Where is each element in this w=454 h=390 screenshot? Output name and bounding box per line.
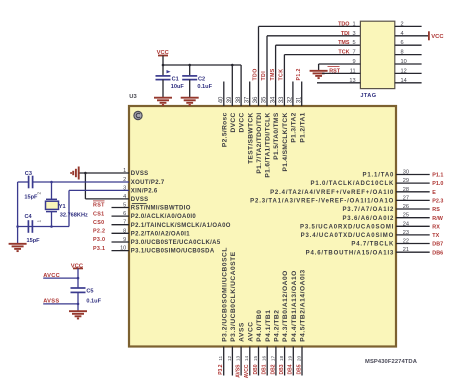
svg-text:TCK: TCK xyxy=(338,50,349,56)
wire U3 pin 12 xyxy=(231,347,233,376)
wire AVSS xyxy=(43,303,78,305)
svg-text:8: 8 xyxy=(401,50,404,56)
svg-text:TDO: TDO xyxy=(253,68,259,80)
svg-text:25: 25 xyxy=(403,213,409,219)
junction C2 rail xyxy=(188,64,191,67)
wire U3 pin 9 stub xyxy=(112,241,130,243)
svg-text:P3.1: P3.1 xyxy=(93,246,105,252)
wire U3 pin 20 xyxy=(301,347,303,376)
wire JTAG pin 2 xyxy=(395,25,422,27)
svg-text:P1.5/TA0/TMS: P1.5/TA0/TMS xyxy=(273,112,280,160)
svg-text:10uF: 10uF xyxy=(171,84,185,90)
node DVSS pin4 underline xyxy=(132,203,147,205)
svg-text:AVSS: AVSS xyxy=(43,299,59,305)
svg-text:P1.2/TA1: P1.2/TA1 xyxy=(299,112,306,142)
wire JTAG pin 10 xyxy=(395,63,422,65)
crystal Y1 xyxy=(46,182,59,227)
svg-text:15pF: 15pF xyxy=(27,238,41,244)
wire TDI horizontal xyxy=(267,35,360,37)
svg-text:11: 11 xyxy=(218,355,224,360)
svg-text:10: 10 xyxy=(401,59,407,65)
capacitor C3 xyxy=(29,176,33,189)
svg-text:19: 19 xyxy=(288,355,294,361)
svg-text:32.768KHz: 32.768KHz xyxy=(60,212,88,218)
wire U3 pin 31 stub xyxy=(301,82,303,107)
wire crystal bottom xyxy=(18,226,69,228)
svg-text:AVCC: AVCC xyxy=(244,364,250,378)
svg-text:P1.1: P1.1 xyxy=(432,173,443,179)
svg-text:5: 5 xyxy=(352,40,355,46)
wire U3 pin 7 stub xyxy=(112,224,130,226)
wire TMS horizontal xyxy=(276,44,361,46)
wire TDO vertical xyxy=(258,26,260,106)
svg-text:24: 24 xyxy=(403,221,409,227)
wire TCK horizontal xyxy=(284,54,360,56)
junction rail bottom wire xyxy=(16,225,19,228)
wire U3 pin 13 xyxy=(240,347,242,376)
svg-text:P1.0/TACLK/ADC10CLK: P1.0/TACLK/ADC10CLK xyxy=(310,181,394,187)
svg-text:DVSS: DVSS xyxy=(131,197,149,203)
svg-text:22: 22 xyxy=(403,239,409,245)
svg-text:DB0: DB0 xyxy=(253,364,259,374)
svg-text:P1.6/TA1/TDI/TCLK: P1.6/TA1/TDI/TCLK xyxy=(265,112,272,177)
svg-text:DB6: DB6 xyxy=(432,250,443,256)
junction pin39 rail xyxy=(231,64,234,67)
wire U3 pin 10 stub xyxy=(112,250,130,252)
capacitor C5 xyxy=(71,288,86,292)
wire C5 to ground xyxy=(77,292,79,311)
wire U3 pin 27 xyxy=(396,199,430,201)
svg-text:U3: U3 xyxy=(129,94,137,100)
svg-text:DVCC: DVCC xyxy=(239,112,246,132)
svg-text:DB4: DB4 xyxy=(288,364,294,374)
svg-text:DVSS: DVSS xyxy=(131,171,149,177)
wire U3 pin 28 xyxy=(396,191,430,193)
svg-text:P4.6/TBOUTH/A15/OA1I3: P4.6/TBOUTH/A15/OA1I3 xyxy=(306,250,395,256)
wire U3 pin 5 stub xyxy=(112,207,130,209)
wire XOUT pin2 xyxy=(33,181,129,183)
svg-text:2: 2 xyxy=(37,192,43,195)
wire U3 pin 23 xyxy=(396,234,430,236)
svg-text:AVCC: AVCC xyxy=(43,273,60,279)
wire TCK vertical xyxy=(283,55,285,106)
svg-text:DB3: DB3 xyxy=(279,364,285,374)
svg-text:P4.5/TB2/A14/OA0I3: P4.5/TB2/A14/OA0I3 xyxy=(300,269,307,342)
ground below C5 xyxy=(69,311,87,318)
wire JTAG pin 14 xyxy=(395,82,422,84)
svg-text:P1.3/TA2: P1.3/TA2 xyxy=(291,112,298,142)
ground at crystal rail xyxy=(9,244,27,251)
svg-text:P4.0/TB0: P4.0/TB0 xyxy=(256,310,263,342)
capacitor C2 xyxy=(182,65,197,98)
power VCC at JTAG xyxy=(429,31,444,40)
svg-text:14: 14 xyxy=(401,78,407,84)
junction crystal top xyxy=(50,181,53,184)
svg-text:15pF: 15pF xyxy=(24,195,38,201)
svg-text:4: 4 xyxy=(401,31,404,37)
svg-text:P3.6/A6/OA0I2: P3.6/A6/OA0I2 xyxy=(342,216,394,222)
svg-text:P2.2: P2.2 xyxy=(93,229,105,235)
svg-text:C3: C3 xyxy=(25,171,32,177)
svg-text:23: 23 xyxy=(403,230,409,236)
wire U3 pin 30 xyxy=(396,174,430,176)
wire U3 pin 17 xyxy=(275,347,277,376)
svg-text:AVSS: AVSS xyxy=(236,364,242,378)
power VCC top xyxy=(157,50,170,65)
svg-text:P2.4/TA2/A4/VREF+/VeREF+/OA1I0: P2.4/TA2/A4/VREF+/VeREF+/OA1I0 xyxy=(270,190,394,196)
wire U3 pin 37 stub xyxy=(249,82,251,107)
svg-text:P1.1/TA0: P1.1/TA0 xyxy=(362,173,394,179)
svg-text:AVCC: AVCC xyxy=(247,321,254,341)
svg-text:20: 20 xyxy=(296,355,302,361)
wire XIN down xyxy=(68,190,70,226)
svg-text:P2.1/TAINCLK/SMCLK/A1/OA0O: P2.1/TAINCLK/SMCLK/A1/OA0O xyxy=(131,223,231,229)
svg-text:R/W: R/W xyxy=(432,216,443,222)
wire U3 pin 21 xyxy=(396,251,430,253)
svg-text:RST/NMI/SBWTDIO: RST/NMI/SBWTDIO xyxy=(131,206,191,212)
wire XIN pin3 xyxy=(69,189,129,191)
svg-text:P1.2: P1.2 xyxy=(296,68,302,80)
wire U3 pin 8 stub xyxy=(112,232,130,234)
svg-text:0.1uF: 0.1uF xyxy=(86,298,101,304)
svg-text:16: 16 xyxy=(262,355,268,361)
wire U3 pin 15 xyxy=(258,347,260,376)
wire JTAG pin 13 xyxy=(317,82,360,84)
svg-text:TCK: TCK xyxy=(279,69,285,81)
svg-text:P4.1/TB1: P4.1/TB1 xyxy=(265,310,272,342)
wire pin9 to ground xyxy=(318,64,320,71)
svg-text:CS1: CS1 xyxy=(93,211,104,217)
svg-text:38: 38 xyxy=(236,96,242,103)
svg-text:0.1uF: 0.1uF xyxy=(197,84,212,90)
wire JTAG pin 8 xyxy=(395,54,422,56)
junction AVCC node xyxy=(77,277,80,280)
svg-text:1: 1 xyxy=(37,220,43,223)
power VCC at AVCC xyxy=(71,264,84,279)
svg-text:AVSS: AVSS xyxy=(239,322,246,342)
svg-text:P3.0/UCB0STE/UCA0CLK/A5: P3.0/UCB0STE/UCA0CLK/A5 xyxy=(131,240,221,246)
svg-text:14: 14 xyxy=(244,355,250,361)
svg-text:12: 12 xyxy=(401,68,407,74)
svg-text:3: 3 xyxy=(352,31,355,37)
wire U3 pin 1 DVSS xyxy=(79,172,129,174)
svg-text:TDI: TDI xyxy=(261,71,267,81)
svg-text:P4.2/TB2: P4.2/TB2 xyxy=(274,310,281,342)
wire TDI vertical xyxy=(266,36,268,106)
wire C3 to rail xyxy=(18,181,29,183)
wire DVCC pin38 xyxy=(240,65,242,106)
svg-text:P3.4/UCA0TXD/UCA0SIMO: P3.4/UCA0TXD/UCA0SIMO xyxy=(301,233,395,239)
svg-text:RST: RST xyxy=(93,203,105,209)
svg-text:TX: TX xyxy=(432,233,439,239)
svg-text:26: 26 xyxy=(403,204,409,210)
svg-text:TDO: TDO xyxy=(338,21,349,27)
wire JTAG pin 6 xyxy=(395,44,422,46)
svg-text:C2: C2 xyxy=(198,77,205,83)
ground below C2 xyxy=(181,98,199,105)
svg-text:P2.3: P2.3 xyxy=(432,199,443,205)
svg-text:DVCC: DVCC xyxy=(230,112,237,132)
svg-text:P4.7/TBCLK: P4.7/TBCLK xyxy=(351,242,394,248)
svg-text:15: 15 xyxy=(253,355,259,361)
wire U3 pin 22 xyxy=(396,243,430,245)
junction crystal bottom xyxy=(50,225,53,228)
svg-text:2: 2 xyxy=(401,21,404,27)
svg-text:TEST/SBWTCK: TEST/SBWTCK xyxy=(247,112,254,163)
svg-text:C5: C5 xyxy=(86,288,93,294)
wire U3 pin 19 xyxy=(292,347,294,376)
wire U3 pin 6 stub xyxy=(112,215,130,217)
svg-text:XIN/P2.6: XIN/P2.6 xyxy=(131,189,158,195)
svg-text:DB1: DB1 xyxy=(262,364,268,374)
svg-text:P1.0: P1.0 xyxy=(432,181,443,187)
svg-text:30: 30 xyxy=(403,170,409,176)
svg-text:JTAG: JTAG xyxy=(360,93,376,99)
wire VCC rail xyxy=(163,64,241,66)
svg-text:P4.4/TB1/A13/OA1O: P4.4/TB1/A13/OA1O xyxy=(291,270,298,342)
wire AVCC xyxy=(43,277,78,279)
svg-text:P2.3/TA1/A3/VREF-/VeREF-/OA1I1: P2.3/TA1/A3/VREF-/VeREF-/OA1I1/OA1O xyxy=(250,199,394,205)
svg-text:1: 1 xyxy=(352,21,355,27)
svg-text:P3.2/UCB0SOMI/UCB0SCL: P3.2/UCB0SOMI/UCB0SCL xyxy=(221,247,228,342)
svg-text:TDI: TDI xyxy=(341,31,350,37)
wire JTAG pin 9 xyxy=(319,63,361,65)
wire JTAG pin 11 RST xyxy=(322,72,360,74)
junction pin1/pin4 xyxy=(84,172,87,175)
wire U3 pin 29 xyxy=(396,182,430,184)
svg-text:P3.2: P3.2 xyxy=(218,364,224,375)
wire DVCC pin39 xyxy=(231,65,233,106)
wire AVCC to C5 xyxy=(77,278,79,288)
svg-text:DB7: DB7 xyxy=(432,242,443,248)
svg-text:P2.5/Rosc: P2.5/Rosc xyxy=(221,112,228,147)
svg-text:39: 39 xyxy=(227,96,233,103)
svg-text:27: 27 xyxy=(403,195,409,201)
svg-text:P1.4/SMCLK/TCK: P1.4/SMCLK/TCK xyxy=(282,112,289,171)
wire pin1 to pin4 xyxy=(84,173,86,199)
svg-text:C1: C1 xyxy=(172,77,179,83)
svg-text:P3.3/UCB0CLK/UCA0STE: P3.3/UCB0CLK/UCA0STE xyxy=(230,251,237,342)
wire JTAG pin 12 xyxy=(395,72,422,74)
svg-text:13: 13 xyxy=(236,355,242,361)
svg-text:E: E xyxy=(432,190,436,196)
svg-text:6: 6 xyxy=(401,40,404,46)
svg-text:CS0: CS0 xyxy=(93,220,104,226)
svg-text:12: 12 xyxy=(227,355,233,361)
wire U3 pin 11 xyxy=(223,347,225,376)
ground at JTAG pin 9 xyxy=(310,71,328,78)
svg-text:RS: RS xyxy=(432,207,440,213)
svg-text:P1.7/TA2/TDO/TDI: P1.7/TA2/TDO/TDI xyxy=(256,112,263,173)
svg-text:C4: C4 xyxy=(25,214,33,220)
wire U3 pin 16 xyxy=(266,347,268,376)
IC U3 MSP430F2274TDA body xyxy=(129,106,396,347)
svg-text:P3.5/UCA0RXD/UCA0SOMI: P3.5/UCA0RXD/UCA0SOMI xyxy=(300,224,394,230)
wire U3 pin 40 stub xyxy=(223,82,225,107)
wire U3 pin 4 DVSS xyxy=(85,198,129,200)
svg-text:P2.0/ACLK/A0/OA0I0: P2.0/ACLK/A0/OA0I0 xyxy=(131,214,197,220)
ground below C1 xyxy=(154,98,172,105)
wire U3 pin 32 stub xyxy=(292,82,294,107)
wire U3 pin 25 xyxy=(396,217,430,219)
svg-text:P3.1/UCB0SIMO/UCB0SDA: P3.1/UCB0SIMO/UCB0SDA xyxy=(131,249,215,255)
svg-text:21: 21 xyxy=(403,247,409,253)
wire U3 pin 14 xyxy=(249,347,251,376)
wire left ground rail xyxy=(17,182,19,244)
svg-text:P4.3/TB0/A12/OA0O: P4.3/TB0/A12/OA0O xyxy=(282,270,289,342)
connector JTAG body xyxy=(360,21,394,88)
svg-text:P3.7/A7/OA1I2: P3.7/A7/OA1I2 xyxy=(342,207,394,213)
svg-text:7: 7 xyxy=(352,50,355,56)
junction C1 rail xyxy=(162,64,165,67)
svg-text:P3.0: P3.0 xyxy=(93,237,105,243)
svg-text:DB5: DB5 xyxy=(296,364,302,374)
svg-text:TMS: TMS xyxy=(270,68,276,80)
svg-text:TMS: TMS xyxy=(338,40,350,46)
capacitor C1 polarized xyxy=(156,65,171,98)
svg-text:VCC: VCC xyxy=(431,34,444,40)
svg-text:29: 29 xyxy=(403,178,409,184)
wire TDO horizontal xyxy=(259,25,361,27)
wire U3 pin 26 xyxy=(396,208,430,210)
wire JTAG pin 4 xyxy=(395,35,429,37)
svg-text:P2.2/TA0/A2/OA0I1: P2.2/TA0/A2/OA0I1 xyxy=(131,231,191,237)
svg-text:DB2: DB2 xyxy=(270,364,276,374)
wire U3 pin 24 xyxy=(396,225,430,227)
svg-text:RX: RX xyxy=(432,224,440,230)
svg-text:Y1: Y1 xyxy=(59,204,66,210)
svg-text:17: 17 xyxy=(270,355,276,361)
wire TMS vertical xyxy=(275,45,277,106)
junction AVSS node xyxy=(77,303,80,306)
svg-text:MSP430F2274TDA: MSP430F2274TDA xyxy=(365,359,418,365)
svg-text:18: 18 xyxy=(279,355,285,361)
capacitor C4 xyxy=(28,220,32,233)
wire U3 pin 18 xyxy=(284,347,286,376)
ground at pin 1 xyxy=(71,167,79,180)
svg-text:28: 28 xyxy=(403,187,409,193)
svg-text:XOUT/P2.7: XOUT/P2.7 xyxy=(131,180,165,186)
